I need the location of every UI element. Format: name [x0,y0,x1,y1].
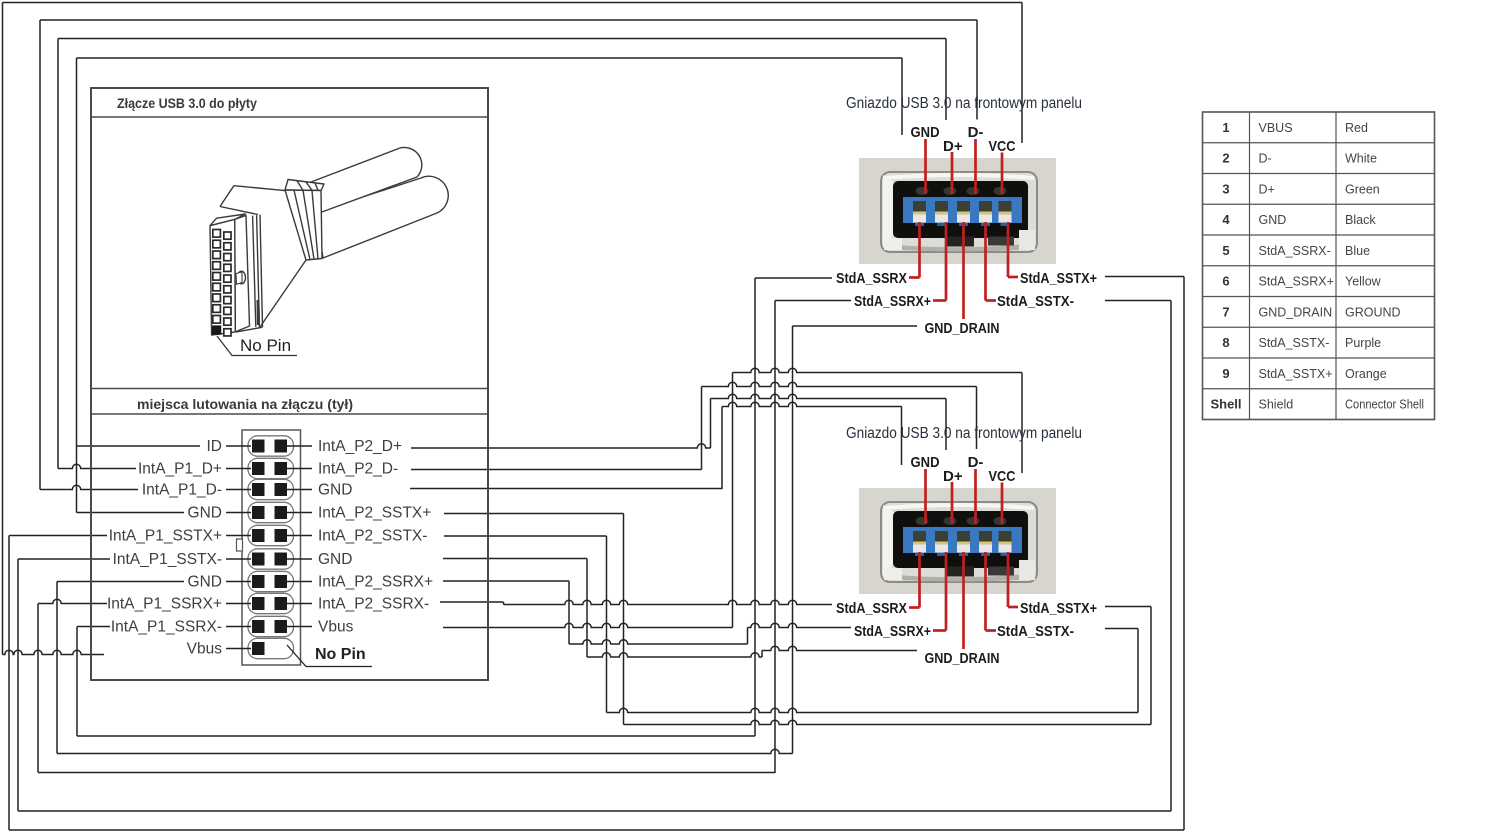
svg-text:GND: GND [318,482,352,499]
svg-text:IntA_P2_SSTX-: IntA_P2_SSTX- [318,528,427,545]
svg-text:Connector Shell: Connector Shell [1345,398,1424,412]
svg-text:IntA_P1_D+: IntA_P1_D+ [138,461,222,478]
svg-text:GND: GND [318,551,352,568]
svg-text:StdA_SSRX-: StdA_SSRX- [1259,244,1331,258]
svg-text:4: 4 [1222,212,1230,227]
svg-text:Green: Green [1345,182,1380,196]
svg-text:Yellow: Yellow [1345,275,1382,289]
svg-text:StdA_SSRX+: StdA_SSRX+ [854,623,931,640]
svg-text:Red: Red [1345,121,1368,135]
svg-text:8: 8 [1222,335,1229,350]
svg-text:Purple: Purple [1345,336,1381,350]
svg-text:IntA_P1_D-: IntA_P1_D- [142,482,222,499]
svg-text:VCC: VCC [989,138,1016,155]
svg-text:IntA_P2_D-: IntA_P2_D- [318,461,398,478]
svg-text:StdA_SSRX: StdA_SSRX [836,270,907,287]
svg-text:IntA_P2_SSRX-: IntA_P2_SSRX- [318,596,429,613]
svg-text:GND: GND [911,124,940,141]
svg-text:IntA_P2_SSTX+: IntA_P2_SSTX+ [318,505,431,522]
svg-text:Shell: Shell [1210,397,1241,412]
svg-text:StdA_SSTX+: StdA_SSTX+ [1020,270,1097,287]
svg-text:StdA_SSTX-: StdA_SSTX- [997,293,1074,310]
svg-text:2: 2 [1222,151,1229,166]
svg-text:Shield: Shield [1259,398,1294,412]
svg-text:VCC: VCC [989,468,1016,485]
svg-text:9: 9 [1222,366,1229,381]
svg-text:IntA_P2_SSRX+: IntA_P2_SSRX+ [318,574,433,591]
svg-text:5: 5 [1222,243,1229,258]
svg-text:Blue: Blue [1345,244,1370,258]
svg-text:StdA_SSTX-: StdA_SSTX- [997,623,1074,640]
svg-text:VBUS: VBUS [1259,121,1293,135]
svg-text:D-: D- [968,454,984,471]
svg-text:No Pin: No Pin [315,646,366,663]
svg-text:3: 3 [1222,181,1229,196]
svg-text:GND_DRAIN: GND_DRAIN [925,650,1000,667]
svg-text:miejsca lutowania na złączu (t: miejsca lutowania na złączu (tył) [137,396,353,412]
svg-text:GND: GND [188,574,222,591]
svg-text:StdA_SSTX+: StdA_SSTX+ [1020,600,1097,617]
svg-text:StdA_SSRX+: StdA_SSRX+ [1259,275,1334,289]
svg-text:D-: D- [1259,152,1272,166]
svg-text:IntA_P1_SSTX-: IntA_P1_SSTX- [113,551,222,568]
svg-text:1: 1 [1222,120,1229,135]
svg-text:GND_DRAIN: GND_DRAIN [1259,305,1333,319]
svg-text:No Pin: No Pin [240,336,291,355]
svg-text:White: White [1345,152,1377,166]
svg-text:Orange: Orange [1345,367,1387,381]
svg-text:GND: GND [188,505,222,522]
svg-text:StdA_SSRX: StdA_SSRX [836,600,907,617]
svg-text:6: 6 [1222,274,1229,289]
svg-text:Gniazdo USB 3.0 na frontowym p: Gniazdo USB 3.0 na frontowym panelu [846,95,1082,112]
svg-text:Gniazdo USB 3.0 na frontowym p: Gniazdo USB 3.0 na frontowym panelu [846,425,1082,442]
svg-text:GND: GND [1259,213,1287,227]
svg-text:IntA_P1_SSRX-: IntA_P1_SSRX- [111,619,222,636]
svg-text:7: 7 [1222,304,1229,319]
svg-text:StdA_SSRX+: StdA_SSRX+ [854,293,931,310]
svg-text:GROUND: GROUND [1345,305,1401,319]
svg-text:IntA_P2_D+: IntA_P2_D+ [318,438,402,455]
svg-text:StdA_SSTX-: StdA_SSTX- [1259,336,1330,350]
svg-text:Złącze USB 3.0 do płyty: Złącze USB 3.0 do płyty [117,95,257,111]
svg-text:Vbus: Vbus [318,619,354,636]
svg-text:D-: D- [968,124,984,141]
svg-text:IntA_P1_SSRX+: IntA_P1_SSRX+ [107,596,222,613]
svg-text:D+: D+ [1259,182,1275,196]
svg-text:IntA_P1_SSTX+: IntA_P1_SSTX+ [109,528,222,545]
svg-text:StdA_SSTX+: StdA_SSTX+ [1259,367,1333,381]
svg-text:Vbus: Vbus [187,641,223,658]
svg-text:GND: GND [911,454,940,471]
svg-text:GND_DRAIN: GND_DRAIN [925,320,1000,337]
svg-text:ID: ID [207,438,223,455]
svg-text:Black: Black [1345,213,1376,227]
